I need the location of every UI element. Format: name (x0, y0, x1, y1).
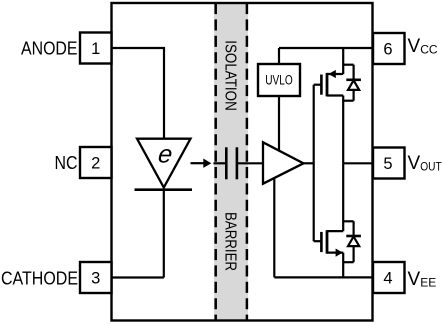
svg-text:CATHODE: CATHODE (1, 268, 78, 288)
package outline (112, 3, 373, 321)
wire Q1 drain to output node (342, 96, 344, 164)
wire buffer to VEE rail (273, 178, 275, 277)
svg-text:1: 1 (91, 40, 100, 58)
transistor Q1 (top MOSFET) (314, 70, 344, 97)
LED cathode bar (135, 188, 193, 191)
diode D1 (top body diode) (343, 65, 361, 101)
signal arrow (191, 159, 212, 168)
capacitor left lead (214, 162, 227, 164)
isolation barrier gray band (214, 4, 248, 320)
pin 3 box (80, 262, 112, 293)
diode D2 (bottom body diode) (343, 221, 361, 262)
UVLO block (258, 64, 300, 96)
pin 4 box (373, 262, 405, 293)
barrier dashed line left (214, 3, 217, 321)
wire output node to pin 5 (343, 162, 373, 164)
svg-text:VOUT: VOUT (408, 153, 442, 174)
wire LED cathode down (163, 190, 165, 278)
wire pin1 to LED anode (112, 48, 165, 138)
wire Q2 source to VEE rail (342, 253, 344, 278)
pin 2 box (80, 147, 112, 178)
svg-text:4: 4 (383, 270, 392, 288)
svg-text:ISOLATION: ISOLATION (221, 40, 238, 111)
svg-text:ANODE: ANODE (21, 38, 78, 58)
capacitor plate 2 (236, 147, 239, 179)
capacitor plate 1 (225, 147, 228, 179)
LED emitter triangle (137, 139, 191, 188)
pin 1 box (80, 33, 112, 64)
svg-text:6: 6 (383, 41, 392, 59)
svg-text:5: 5 (383, 155, 392, 173)
wire VEE rail to pin 4 (274, 276, 373, 278)
wire VCC rail (279, 47, 373, 49)
svg-text:e: e (157, 140, 174, 168)
wire Q2 drain to output node (342, 163, 344, 231)
buffer output wire to gate node (304, 162, 314, 164)
svg-text:VCC: VCC (408, 36, 438, 57)
buffer U1 (263, 142, 304, 183)
barrier dashed line right (246, 3, 249, 321)
capacitor right lead (237, 162, 263, 164)
wire gate drive column (313, 85, 315, 242)
svg-text:VEE: VEE (408, 269, 437, 290)
wire UVLO to buffer (278, 96, 280, 150)
wire pin3 to LED (112, 276, 164, 278)
svg-text:2: 2 (91, 155, 100, 173)
transistor Q2 (bottom MOSFET) (314, 230, 344, 257)
pin 6 box (373, 33, 405, 64)
svg-text:UVLO: UVLO (265, 72, 293, 87)
wire UVLO to VCC rail (278, 48, 280, 64)
svg-text:3: 3 (91, 270, 100, 288)
pin 5 box (373, 148, 405, 179)
wire Q1 source to VCC rail (342, 48, 344, 74)
svg-text:NC: NC (55, 153, 78, 173)
svg-text:BARRIER: BARRIER (221, 212, 238, 271)
